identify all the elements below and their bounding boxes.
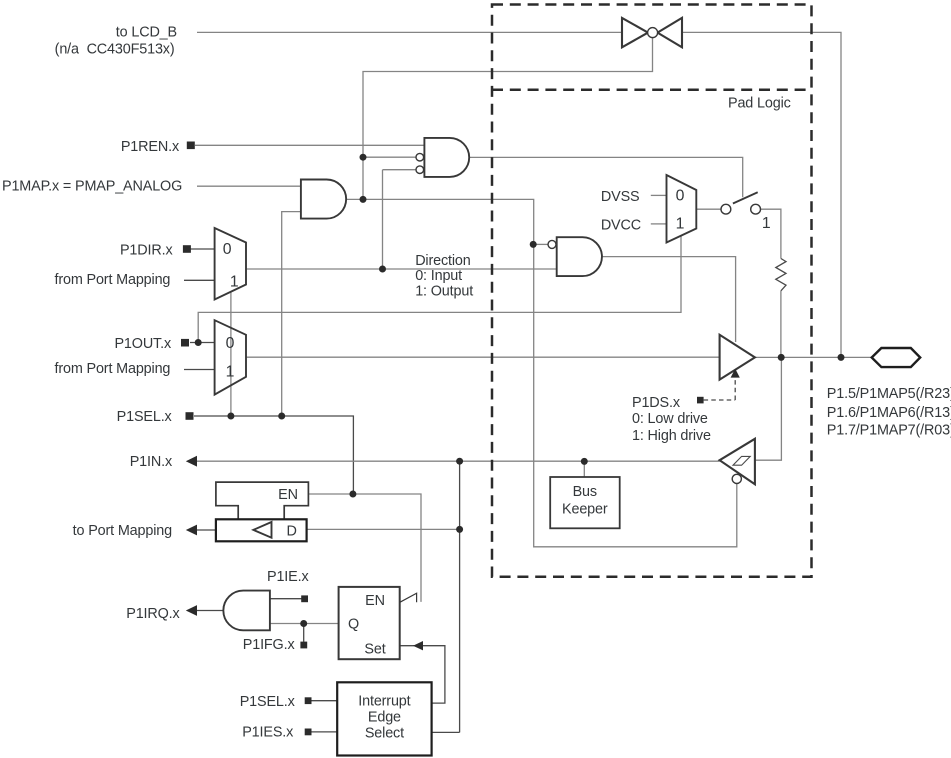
svg-text:P1IN.x: P1IN.x <box>130 454 173 470</box>
AND gate U2 (pullup/pulldown enable) <box>416 138 469 177</box>
mux M3 (DVSS / DVCC pull resistor source) <box>667 175 697 243</box>
wire U3 output: right, down, to Schmitt enable bubble <box>346 199 737 546</box>
Pad Logic dashed boundary box <box>492 5 812 577</box>
wire U2 output to pullup switch control <box>469 157 743 197</box>
svg-text:Pad Logic: Pad Logic <box>728 96 791 112</box>
wire P1IE.x to AND U7 input 1 <box>270 598 302 600</box>
square terminal P1DIR.x <box>183 245 191 253</box>
junction node (Q line / P1IFG) <box>300 620 307 627</box>
svg-text:0: 0 <box>223 241 232 258</box>
wire Bus Keeper stub <box>583 461 585 477</box>
svg-text:EN: EN <box>365 593 385 609</box>
svg-text:D: D <box>286 524 296 540</box>
wire P1DIR.x to mux M1 input 0 <box>190 248 215 250</box>
wire P1IN.x line from Schmitt output <box>194 460 720 462</box>
AND gate U7 (interrupt request, mirrored) <box>223 591 270 631</box>
wire Direction: mux M1 output to NAND U4 input 2 <box>246 268 557 270</box>
arrow on Set wire (points left into flipflop) <box>413 641 423 650</box>
transmission gate (analog pass gate) to LCD_B <box>622 18 682 47</box>
svg-text:Q: Q <box>348 616 359 632</box>
wire P1MAP.x = PMAP_ANALOG to AND U3 input 1 <box>197 185 301 187</box>
svg-text:P1OUT.x: P1OUT.x <box>114 336 171 352</box>
wire mux M2 output to output driver U5 input <box>246 356 720 358</box>
wire P1REN.x to AND U2 input 1 <box>195 144 425 146</box>
wire from Port Mapping to mux M1 input 1 <box>184 279 215 281</box>
svg-text:0: 0 <box>226 335 235 352</box>
square terminal P1SEL.x <box>186 412 194 420</box>
svg-text:0: Low drive: 0: Low drive <box>632 411 708 427</box>
Schmitt trigger input buffer U6 <box>720 439 755 485</box>
svg-text:from Port Mapping: from Port Mapping <box>54 272 170 288</box>
resistor R1 (pullup/pulldown) <box>776 259 786 291</box>
Interrupt Edge Select box <box>337 682 431 755</box>
wire driver U5 output to pad <box>755 356 872 358</box>
wire to LCD_B (left of transmission gate) <box>197 31 622 33</box>
svg-text:P1DS.x: P1DS.x <box>632 395 681 411</box>
svg-text:1: 1 <box>676 216 685 233</box>
arrow to Port Mapping (left) <box>186 525 197 536</box>
svg-text:1: 1 <box>762 215 771 232</box>
interrupt flag flipflop (EN / Q / Set) <box>339 587 417 659</box>
square terminal P1IFG.x <box>300 642 307 649</box>
svg-text:to Port Mapping: to Port Mapping <box>73 523 172 539</box>
svg-text:Interrupt: Interrupt <box>358 693 410 709</box>
junction node (latch D / edge select net) <box>456 526 463 533</box>
junction node (U3 output / ctl line) <box>360 196 367 203</box>
wire pad-input net: P1IN node down to Interrupt Edge Select <box>432 461 460 732</box>
wire P1SEL.x line to EN-line junction <box>194 416 353 493</box>
Bus Keeper box <box>550 477 620 528</box>
svg-text:DVSS: DVSS <box>601 189 640 205</box>
svg-text:P1.6/P1MAP6(/R13): P1.6/P1MAP6(/R13) <box>827 405 951 421</box>
AND gate U3 (PMAP_ANALOG & P1SEL) <box>301 180 346 219</box>
wire P1IES.x stub to Interrupt Edge Select <box>312 731 338 733</box>
svg-text:to LCD_B: to LCD_B <box>116 25 177 41</box>
wire mux M3 output to switch contact <box>696 208 721 210</box>
wire from Port Mapping to mux M2 input 1 <box>184 369 215 371</box>
svg-text:from Port Mapping: from Port Mapping <box>54 361 170 377</box>
wire P1SEL node up to AND U3 input 2 <box>282 212 301 416</box>
P1DS.x dashed control arrow into driver <box>704 369 740 400</box>
svg-text:Edge: Edge <box>368 710 401 726</box>
mux M2 (P1OUT / from Port Mapping) <box>215 320 246 394</box>
svg-text:P1MAP.x = PMAP_ANALOG: P1MAP.x = PMAP_ANALOG <box>2 178 182 194</box>
square terminal P1OUT.x <box>181 339 189 347</box>
output driver buffer U5 <box>720 335 755 380</box>
svg-text:1: 1 <box>230 274 239 291</box>
square terminal P1SEL.x (interrupt) <box>305 697 312 704</box>
square terminal P1IE.x <box>301 595 308 602</box>
junction node (P1SEL / mux M1 select) <box>227 413 234 420</box>
AND gate U4 (direction & not-analog) with bubble input <box>548 237 602 276</box>
junction node (P1OUT / mux M3 select) <box>195 339 202 346</box>
svg-text:P1.7/P1MAP7(/R03): P1.7/P1MAP7(/R03) <box>827 423 951 439</box>
square terminal P1REN.x <box>187 142 195 150</box>
pad hexagon P1.x pin <box>872 348 921 367</box>
wire latch D input from pad-input net <box>307 528 460 530</box>
arrow P1IRQ.x (left) <box>186 605 197 616</box>
svg-text:P1IES.x: P1IES.x <box>242 725 294 741</box>
junction node (pad line / transmission gate) <box>838 354 845 361</box>
svg-text:P1REN.x: P1REN.x <box>121 139 180 155</box>
wire P1OUT node to DVSS/DVCC mux M3 select <box>198 236 681 343</box>
wire P1OUT.x to mux M2 input 0 <box>190 342 215 344</box>
junction node (transmission ctl / U2 input) <box>360 154 367 161</box>
svg-text:P1IFG.x: P1IFG.x <box>243 637 296 653</box>
wire DVSS stub <box>651 194 667 196</box>
svg-text:(n/a CC430F513x): (n/a CC430F513x) <box>55 42 175 58</box>
junction node (P1SEL / U3 input) <box>278 413 285 420</box>
svg-text:1: Output: 1: Output <box>415 283 473 299</box>
wire node to U2 bubble input 2 <box>363 156 416 158</box>
wire latch EN line to interrupt flipflop enable <box>309 494 421 602</box>
svg-text:Keeper: Keeper <box>562 502 608 518</box>
wire AND U7 output to P1IRQ.x arrow <box>196 610 223 612</box>
wire transmission gate to pad node (right segment, down to pad line) <box>682 32 841 357</box>
svg-text:Direction: Direction <box>415 253 471 269</box>
svg-text:0: Input: 0: Input <box>415 268 462 284</box>
junction node (P1IN / bus keeper) <box>581 458 588 465</box>
svg-text:P1IRQ.x: P1IRQ.x <box>126 606 180 622</box>
wire U3-output node to NAND U4 bubble input <box>533 243 548 245</box>
P1DS.x square terminal <box>697 397 704 404</box>
junction node (P1IN / edge select net) <box>456 458 463 465</box>
svg-text:P1IE.x: P1IE.x <box>267 569 309 585</box>
svg-text:P1SEL.x: P1SEL.x <box>117 409 173 425</box>
svg-text:Select: Select <box>365 726 404 742</box>
svg-text:P1SEL.x: P1SEL.x <box>240 694 296 710</box>
wire direction node to U2 bubble input 3 <box>383 170 417 269</box>
svg-text:0: 0 <box>676 187 685 204</box>
wire Interrupt Edge Select to flipflop Set <box>400 646 445 703</box>
wire transmission-gate control: down, left, down to analog-AND output node <box>363 38 653 199</box>
svg-text:1: 1 <box>226 364 235 381</box>
wire mux M1 select from P1SEL line <box>230 292 232 416</box>
wire to Port Mapping from latch output <box>195 529 216 531</box>
arrow P1IN.x (left) <box>186 456 197 467</box>
junction node (P1SEL / latch EN line) <box>349 491 356 498</box>
svg-text:Bus: Bus <box>573 484 597 500</box>
wire NAND U4 output to driver U5 enable (top) <box>602 257 736 342</box>
wire flipflop Q to AND U7 input 2 <box>270 623 339 625</box>
square terminal P1IES.x <box>305 729 312 736</box>
wire P1IFG.x stub to Q line <box>303 624 305 642</box>
switch S1 (resistor enable) <box>721 192 760 214</box>
svg-text:1: High drive: 1: High drive <box>632 428 711 444</box>
input latch D box with buffer triangle <box>216 519 307 541</box>
wire P1SEL.x stub to Interrupt Edge Select <box>312 700 338 702</box>
junction node (analog line / U4 bubble) <box>530 241 537 248</box>
Pad Logic dashed divider line <box>492 88 812 91</box>
wire switch to resistor R1 to pad line <box>761 209 781 357</box>
junction node (driver output / resistor) <box>778 354 785 361</box>
mux M1 (P1DIR / from Port Mapping) <box>215 228 246 300</box>
svg-text:P1DIR.x: P1DIR.x <box>120 243 173 259</box>
wire DVCC stub <box>651 223 667 225</box>
svg-text:DVCC: DVCC <box>601 218 641 234</box>
svg-text:P1.5/P1MAP5(/R23): P1.5/P1MAP5(/R23) <box>827 386 951 402</box>
svg-text:EN: EN <box>278 487 298 503</box>
wire Schmitt U6 input from pad node <box>755 357 782 460</box>
input latch EN block (staple shape) <box>216 482 309 519</box>
svg-text:Set: Set <box>364 641 385 657</box>
junction node (Direction / U2 input 3) <box>379 266 386 273</box>
